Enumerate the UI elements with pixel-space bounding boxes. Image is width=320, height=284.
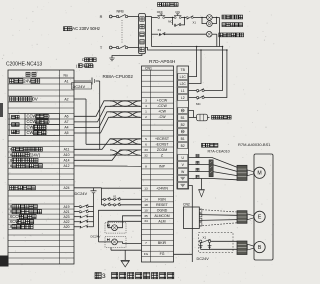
svg-text:L1C: L1C <box>180 75 187 79</box>
svg-text:2: 2 <box>145 115 147 119</box>
svg-text:L1: L1 <box>181 89 185 93</box>
svg-text:13: 13 <box>144 186 148 190</box>
svg-text:+CW: +CW <box>158 110 167 114</box>
svg-text:A24: A24 <box>63 186 69 190</box>
svg-text:7: 7 <box>145 241 147 245</box>
svg-text:B1: B1 <box>181 137 185 141</box>
svg-text:+ECRST: +ECRST <box>155 137 170 141</box>
svg-text:NFB: NFB <box>117 9 125 13</box>
svg-text:ALMCOM: ALMCOM <box>154 214 169 218</box>
svg-text:OGND: OGND <box>157 208 168 212</box>
svg-text:A2: A2 <box>64 97 68 101</box>
svg-text:A4: A4 <box>64 126 68 130</box>
svg-text:DC24V: DC24V <box>197 257 210 261</box>
svg-text:B: B <box>258 245 262 251</box>
svg-text:1: 1 <box>145 110 147 114</box>
svg-text:FG: FG <box>144 252 149 256</box>
svg-text:R7D-AP04H: R7D-AP04H <box>149 59 176 65</box>
svg-text:A20: A20 <box>63 225 69 229</box>
svg-text:R: R <box>100 15 103 19</box>
svg-text:L2C: L2C <box>180 82 187 86</box>
svg-text:CN2: CN2 <box>183 202 190 206</box>
svg-text:B1: B1 <box>181 116 185 120</box>
svg-text:(24V): (24V) <box>30 152 41 157</box>
svg-text:TB: TB <box>181 68 186 72</box>
svg-text:B2: B2 <box>181 123 185 127</box>
svg-text:B2: B2 <box>181 144 185 148</box>
svg-text:35: 35 <box>144 214 148 218</box>
svg-text:33: 33 <box>144 148 148 152</box>
svg-text:DC24V: DC24V <box>91 235 102 239</box>
svg-text:A22: A22 <box>63 220 69 224</box>
svg-text:M: M <box>257 171 261 177</box>
svg-text:A19: A19 <box>63 205 69 209</box>
svg-text:3: 3 <box>102 273 106 280</box>
svg-text:3: 3 <box>82 63 84 68</box>
svg-text:R7M-A40030-BS1: R7M-A40030-BS1 <box>238 142 271 147</box>
svg-text:DC24V: DC24V <box>75 191 88 196</box>
svg-text:AC 230V 50Hz: AC 230V 50Hz <box>72 26 100 31</box>
svg-text:A1: A1 <box>64 79 68 83</box>
svg-text:A6: A6 <box>64 115 68 119</box>
svg-text:+CCW: +CCW <box>157 99 168 103</box>
svg-text:INP: INP <box>159 164 166 168</box>
svg-text:RUN: RUN <box>158 197 166 201</box>
svg-text:FG: FG <box>160 252 165 256</box>
svg-text:-CCW: -CCW <box>157 104 167 108</box>
svg-text:34: 34 <box>144 219 148 223</box>
svg-text:4: 4 <box>145 104 147 108</box>
svg-text:R88A-CPU002: R88A-CPU002 <box>103 74 134 79</box>
svg-text:No: No <box>64 73 68 77</box>
svg-text:8: 8 <box>145 164 147 168</box>
svg-text:-CW: -CW <box>159 115 167 119</box>
svg-text:MC: MC <box>168 20 172 24</box>
svg-text:A21: A21 <box>63 210 69 214</box>
svg-text:6: 6 <box>145 142 147 146</box>
svg-text:RESET: RESET <box>156 203 169 207</box>
svg-text:BKIR: BKIR <box>158 241 167 245</box>
svg-text:A10: A10 <box>63 153 69 157</box>
svg-text:-ECRST: -ECRST <box>155 142 169 146</box>
svg-text:3: 3 <box>145 99 147 103</box>
svg-text:24V: 24V <box>23 79 31 84</box>
svg-text:E: E <box>258 215 262 221</box>
svg-text:X1: X1 <box>113 194 117 198</box>
svg-text:A12: A12 <box>63 164 69 168</box>
svg-text:A23: A23 <box>63 215 69 219</box>
svg-text:A14: A14 <box>63 159 69 163</box>
svg-text:14: 14 <box>144 197 148 201</box>
svg-text:X1: X1 <box>203 235 207 239</box>
svg-text:18: 18 <box>144 203 148 207</box>
svg-text:A11: A11 <box>64 148 70 152</box>
svg-text:L2: L2 <box>181 96 185 100</box>
svg-text:A7: A7 <box>64 120 68 124</box>
svg-text:R7A-CEA010: R7A-CEA010 <box>208 149 230 153</box>
svg-text:ALM: ALM <box>158 219 165 223</box>
svg-text:+24VIN: +24VIN <box>156 186 168 190</box>
svg-text:32: 32 <box>144 153 148 157</box>
svg-text:A5: A5 <box>64 131 68 135</box>
svg-text:0V: 0V <box>32 97 38 102</box>
svg-text:X1: X1 <box>193 21 197 25</box>
svg-text:DC24V: DC24V <box>73 84 86 89</box>
svg-text:C200HE-NC413: C200HE-NC413 <box>6 62 42 68</box>
svg-text:ZCOM: ZCOM <box>157 148 167 152</box>
svg-text:10: 10 <box>144 208 148 212</box>
svg-text:5: 5 <box>145 137 147 141</box>
svg-text:X1: X1 <box>158 28 162 32</box>
